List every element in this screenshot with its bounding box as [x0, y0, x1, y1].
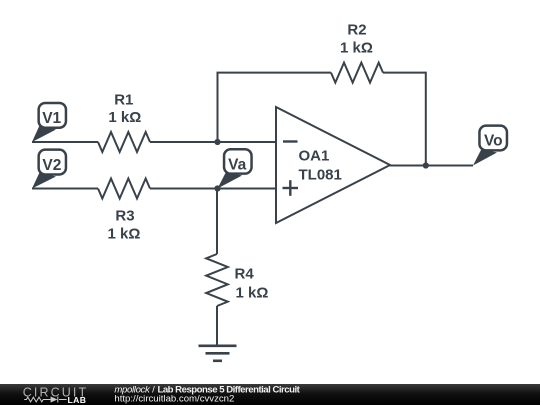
node flag V1 [32, 103, 66, 142]
svg-text:LAB: LAB [68, 395, 87, 405]
svg-text:1 kΩ: 1 kΩ [236, 284, 269, 301]
svg-text:TL081: TL081 [299, 167, 342, 184]
label R1 value [108, 92, 141, 127]
label R4 value [235, 266, 269, 302]
node flag Vo [473, 126, 507, 166]
resistor R3 [98, 179, 150, 199]
wire feedback from inverting input node up and across to R2 [218, 73, 332, 142]
node junction dot at output [423, 162, 429, 168]
wire R3 to op-amp non-inverting input [150, 188, 276, 190]
svg-text:OA1: OA1 [299, 148, 330, 165]
resistor R4 [206, 254, 228, 306]
svg-text:1 kΩ: 1 kΩ [108, 225, 141, 242]
footer logo schematic line [24, 397, 66, 403]
svg-text:V2: V2 [42, 157, 61, 174]
node flag Va [218, 149, 252, 188]
wire V1 input to R1 [32, 141, 98, 143]
svg-text:1 kΩ: 1 kΩ [108, 109, 141, 126]
wire R4 to ground [216, 306, 218, 346]
svg-text:http://circuitlab.com/cvvzcn2: http://circuitlab.com/cvvzcn2 [114, 394, 234, 405]
node junction dot at inverting input [214, 139, 220, 145]
footer logo diode [51, 397, 58, 403]
wire feedback from R2 down to output node [383, 73, 426, 166]
svg-text:R3: R3 [115, 208, 134, 225]
node flag V2 [32, 150, 66, 189]
svg-text:Vo: Vo [484, 133, 503, 150]
wire op-amp output [390, 165, 473, 167]
op-amp OA1 [276, 107, 390, 223]
wire node Va down to R4 [216, 189, 218, 255]
footer bar [0, 384, 540, 405]
svg-text:R4: R4 [235, 266, 255, 283]
svg-text:V1: V1 [42, 110, 61, 127]
node junction dot at Va [214, 185, 220, 191]
label R2 value [340, 22, 373, 57]
resistor R1 [98, 132, 150, 152]
resistor R2 [331, 63, 383, 83]
label R3 value [108, 208, 141, 243]
svg-text:R1: R1 [114, 92, 133, 109]
svg-text:1 kΩ: 1 kΩ [340, 40, 373, 57]
wire V2 input to R3 [32, 188, 98, 190]
ground [199, 346, 237, 361]
wire R1 to op-amp inverting input [150, 141, 276, 143]
svg-text:Va: Va [228, 156, 246, 173]
svg-text:R2: R2 [347, 22, 366, 39]
